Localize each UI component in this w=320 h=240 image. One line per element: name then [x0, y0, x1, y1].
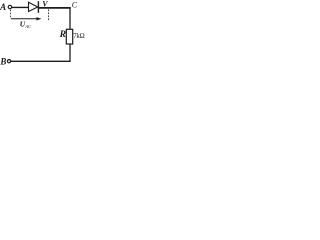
svg-text:R: R: [59, 30, 66, 40]
leader dashed from A: [10, 10, 12, 19]
terminal A: [8, 5, 11, 8]
leader dashed from cathode wire: [48, 9, 50, 20]
wire cathode to corner: [39, 7, 71, 9]
wire corner down to resistor: [69, 7, 71, 29]
terminal B: [7, 60, 10, 63]
wire resistor down: [69, 44, 71, 62]
voltage arrow U_AC: [11, 17, 42, 20]
resistor R: [66, 29, 72, 44]
svg-text:A: A: [0, 2, 6, 12]
wire bottom: [11, 60, 71, 62]
svg-text:B: B: [0, 57, 6, 67]
wire anode: [12, 6, 29, 8]
svg-text:7kΩ: 7kΩ: [73, 33, 84, 40]
svg-text:C: C: [72, 0, 78, 9]
diode V: [29, 1, 39, 13]
